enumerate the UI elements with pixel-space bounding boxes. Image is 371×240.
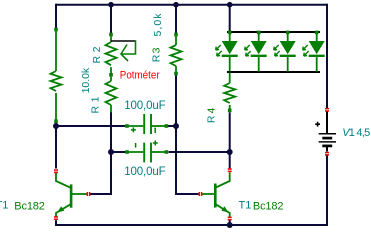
resistor R3 body [171,45,182,66]
wire left column upper [55,4,57,28]
node top rail junction x230 [227,2,233,8]
resistor R4 lead bottom [229,105,231,109]
capacitor C1 plates [144,114,151,134]
label C1 value [124,100,166,112]
resistor R1 body [106,81,117,105]
resistor left 10.0k lead top [55,31,57,71]
svg-text:10.0k: 10.0k [80,67,92,93]
transistor Q2 emitter lead [216,204,230,216]
resistor R3 lead top [175,37,177,46]
potentiometer R2 arrow barbs [121,45,128,62]
svg-text:R3: R3 [151,47,163,62]
resistor R1 lead bottom [110,105,112,113]
label Potmeter [120,70,160,82]
pin marker Q1 emitter [54,216,58,220]
resistor R3 lead bottom [175,66,177,72]
node left collector cap1 junction [53,123,59,129]
label R1 [90,96,102,113]
resistor left 10.0k body [51,71,62,91]
svg-text:Bc182: Bc182 [253,200,284,212]
transistor Q1 base lead [72,193,87,195]
wire cap2 rail right [169,151,230,153]
label Bc182 right [253,200,284,212]
LED D3 [274,31,296,72]
transistor Q2 bar [214,184,217,208]
wire left collector node vertical [55,123,57,169]
potentiometer R2 lead top [110,37,112,43]
wire right emitter to rail [229,220,231,226]
transistor Q1 collector lead [56,172,71,187]
potentiometer R2 lead bottom [110,67,112,73]
LED D2 [245,31,267,72]
LED D4 [303,31,325,72]
wire cap2 rail left [111,151,125,153]
svg-text:R1: R1 [90,96,102,113]
label V1 4,5 [342,127,370,139]
wire R4 bottom to right collector [229,112,231,168]
svg-text:R2: R2 [91,46,103,63]
wire left base horizontal [90,193,112,195]
LED bus top [227,31,320,33]
pin marker Q1 collector [54,169,58,173]
label T1 right [239,199,252,211]
capacitor C2 minus mark [135,143,137,148]
resistor R1 lead top [110,77,112,81]
wire cap1 rail left [55,125,125,127]
potentiometer R2 wiper black link [111,40,136,42]
potentiometer R2 wiper arm [121,40,136,54]
pin C1 right [165,124,169,128]
pin R4 bottom [228,109,232,113]
wire right column to battery [326,4,328,108]
battery V1 lead bottom [326,147,328,152]
pin marker Q2 collector [228,168,232,172]
wire battery to bottom rail [326,155,328,226]
wire column R3 top [175,5,177,33]
label 5,0k [152,13,164,37]
wire column LED top [229,5,231,32]
svg-text:T1: T1 [239,199,252,211]
svg-text:T1: T1 [0,200,8,212]
label R2 [91,46,103,63]
capacitor C2 plus mark [153,141,158,146]
svg-text:V1 4,5: V1 4,5 [342,127,370,139]
capacitor C1 lead left [126,125,143,127]
label 10.0k [80,67,92,93]
transistor Q2 emitter arrow [221,206,228,212]
pin R2 top [109,33,113,37]
capacitor C1 lead right [152,125,167,127]
LED D1 [216,31,238,72]
node right collector junction [227,149,233,155]
node cap2 left junction [108,149,114,155]
node top rail junction x176 [173,2,179,8]
battery V1 plus sign [315,122,320,127]
wire column R2 top [110,5,112,33]
pin R3 top [174,33,178,37]
pin C2 right [165,150,169,154]
transistor Q1 emitter arrow [57,206,64,212]
wire left emitter to rail [55,220,57,226]
pin C2 left [125,150,129,154]
pin marker Q1 base [87,192,91,196]
resistor R4 lead top [229,73,231,84]
transistor Q2 base lead [202,193,215,195]
battery V1 plates [319,134,336,146]
label R3 [151,47,163,62]
resistor R4 body [224,83,235,103]
node bottom rail junction [227,222,233,228]
pin left resistor bottom [54,119,58,123]
pin C1 left [125,124,129,128]
pin left resistor top [54,28,58,32]
pin marker Q2 emitter [228,217,232,221]
transistor Q2 collector lead [216,172,230,187]
battery V1 lead top [326,112,328,134]
capacitor C2 plates [144,143,151,163]
pin marker battery top [325,108,329,112]
pin R2 bottom R1 top [109,73,113,77]
svg-text:5,0k: 5,0k [152,13,164,37]
wire cap1 rail right [168,125,176,127]
node cap1 right junction [173,123,179,129]
wire top rail [56,4,327,6]
svg-text:R4: R4 [206,108,218,124]
capacitor C1 plus mark [131,127,136,132]
potentiometer R2 body [106,42,117,65]
resistor left 10.0k lead bottom [55,93,57,120]
svg-text:100,0uF: 100,0uF [124,166,166,178]
svg-text:Bc182: Bc182 [14,200,45,212]
svg-text:100,0uF: 100,0uF [124,100,166,112]
transistor Q1 bar [70,184,73,207]
svg-text:Potméter: Potméter [120,70,160,82]
LED bus bottom [227,71,320,73]
wire R1 bottom to left base node [110,112,112,195]
wire R3 bottom to right base [176,76,198,195]
wire bottom rail [56,224,327,226]
capacitor C2 lead left [126,151,143,153]
capacitor C2 lead right [152,151,167,153]
transistor Q1 emitter lead [56,204,71,216]
node top rail junction x111 [108,2,114,8]
pin marker Q2 base [199,192,203,196]
pin R3 bottom [174,72,178,76]
pin marker battery bottom [325,152,329,156]
label C2 value [124,166,166,178]
label T1 left [0,200,8,212]
label Bc182 left [14,200,45,212]
capacitor C1 minus mark [154,128,156,133]
label R4 [206,108,218,124]
